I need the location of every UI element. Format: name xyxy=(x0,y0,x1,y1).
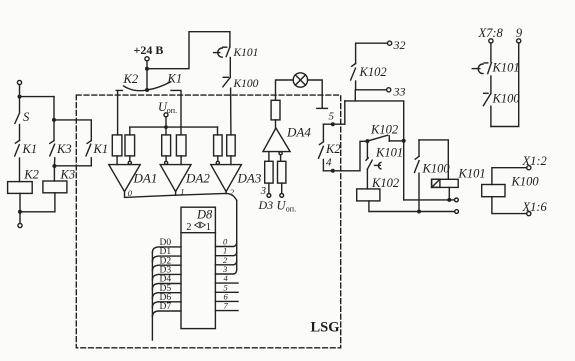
node 5 xyxy=(331,122,335,126)
input D2 xyxy=(152,265,181,271)
switch K2 (curved blade) xyxy=(123,69,150,92)
svg-text:K3: K3 xyxy=(60,168,76,182)
switch K1 xyxy=(15,140,37,181)
output 6 xyxy=(215,300,238,302)
svg-text:оп.: оп. xyxy=(286,205,296,214)
contact K101 (top) xyxy=(214,32,259,59)
resistor R4 xyxy=(176,135,186,156)
wire xyxy=(491,43,519,127)
wire + inverting input DA1 xyxy=(129,156,131,161)
wire xyxy=(490,43,492,62)
svg-text:5: 5 xyxy=(329,111,335,123)
svg-text:K102: K102 xyxy=(371,176,399,190)
resistor R3 xyxy=(162,135,171,156)
wire lamp right xyxy=(308,80,323,108)
terminal bottom-left xyxy=(18,223,22,227)
svg-text:K101: K101 xyxy=(458,167,486,181)
svg-text:K101: K101 xyxy=(233,47,259,59)
contact plate node 5 xyxy=(317,107,328,109)
contact K100 (top) xyxy=(223,77,259,135)
switch K1 (curved blade) xyxy=(147,72,182,91)
output 5 xyxy=(215,291,238,293)
terminal X1:2 xyxy=(527,166,531,170)
svg-text:DA4: DA4 xyxy=(286,125,311,140)
switch S xyxy=(15,97,30,141)
switch K2 (node 5-4) xyxy=(319,124,341,171)
multiplexer D8 xyxy=(181,207,215,328)
input D1 xyxy=(152,256,181,262)
wire xyxy=(165,127,167,135)
wire xyxy=(19,85,21,97)
input D4 xyxy=(152,284,181,290)
inverting input DA4 xyxy=(279,152,282,155)
svg-text:33: 33 xyxy=(393,85,406,99)
wire xyxy=(225,192,227,194)
fixed contact left (to R1) xyxy=(116,90,122,134)
wire node4 xyxy=(323,141,367,171)
svg-text:K1: K1 xyxy=(22,142,38,156)
svg-text:9: 9 xyxy=(516,26,523,40)
wire xyxy=(355,90,386,101)
resistor R9 xyxy=(278,161,286,183)
input D0 xyxy=(152,247,181,253)
node K101 coil bottom xyxy=(447,198,451,202)
terminal top-left xyxy=(17,80,21,84)
relay coil K100 xyxy=(482,175,540,197)
node rail xyxy=(402,139,406,143)
node 4 xyxy=(331,169,335,173)
output 1 xyxy=(215,251,236,256)
svg-text:DA2: DA2 xyxy=(185,171,210,186)
svg-text:K2: K2 xyxy=(23,168,39,182)
contact K101 (X7 branch) xyxy=(472,61,519,75)
wire xyxy=(492,197,527,214)
resistor R2 xyxy=(125,135,135,156)
wire xyxy=(175,192,177,196)
node K102 pivot xyxy=(365,139,369,143)
terminal +24V xyxy=(145,57,149,61)
terminal bottom right 2 xyxy=(455,210,459,214)
wire xyxy=(53,97,55,120)
svg-text:D7: D7 xyxy=(160,302,172,312)
wire xyxy=(116,156,118,165)
resistor R5 xyxy=(214,135,223,156)
wire xyxy=(19,212,21,224)
svg-text:+24 В: +24 В xyxy=(134,43,164,57)
svg-text:K3: K3 xyxy=(56,142,72,156)
wire xyxy=(146,61,148,69)
wire xyxy=(268,152,270,162)
svg-text:K1: K1 xyxy=(167,72,183,86)
relay coil K102 xyxy=(357,176,399,201)
wire output bus DA1-DA3 xyxy=(125,192,237,201)
wire xyxy=(356,43,388,63)
terminal 33 xyxy=(387,88,391,92)
input D5 xyxy=(152,293,181,299)
node junction K3 top xyxy=(52,118,56,122)
wire xyxy=(344,101,346,124)
svg-text:K100: K100 xyxy=(511,175,540,189)
node junction K3 bottom xyxy=(52,164,56,168)
terminal Uop xyxy=(164,113,168,117)
terminal 32 xyxy=(388,41,392,45)
wire Uop bus xyxy=(130,126,218,128)
svg-text:1: 1 xyxy=(206,222,211,233)
svg-text:7: 7 xyxy=(224,301,229,311)
svg-text:3: 3 xyxy=(260,186,266,197)
svg-text:K101: K101 xyxy=(492,61,520,75)
wire xyxy=(276,80,294,100)
op-amp DA3 xyxy=(211,165,262,192)
wire xyxy=(180,156,182,165)
svg-text:K100: K100 xyxy=(422,162,451,176)
resistor R6 xyxy=(227,135,236,156)
wire xyxy=(53,166,55,181)
svg-text:32: 32 xyxy=(393,38,406,52)
wire xyxy=(448,187,450,200)
wire + inverting input DA3 xyxy=(217,156,219,161)
wire xyxy=(490,76,492,93)
wire branch to rail xyxy=(345,101,404,200)
wire xyxy=(147,32,230,69)
svg-text:4: 4 xyxy=(326,157,332,169)
op-amp DA1 xyxy=(109,165,158,192)
wire bus vertical to mux outputs xyxy=(236,201,238,270)
switch K1 (second) xyxy=(86,141,108,166)
svg-text:2: 2 xyxy=(186,222,191,233)
wire xyxy=(20,193,55,212)
wire xyxy=(492,168,527,185)
terminal X7:8 xyxy=(489,39,493,43)
wire K100 loop top xyxy=(419,140,448,179)
wire xyxy=(229,58,231,78)
dashed box LSG xyxy=(76,95,340,348)
svg-text:X7:8: X7:8 xyxy=(478,26,504,40)
terminal D3 xyxy=(267,194,271,198)
wire rail bottom xyxy=(404,199,455,201)
wire xyxy=(54,120,91,141)
wire xyxy=(54,165,91,167)
wire input bus vertical xyxy=(151,252,153,340)
wire + inverting input DA2 xyxy=(165,156,167,161)
relay coil K2 xyxy=(8,168,39,194)
switch K102 (32-33) xyxy=(351,64,387,90)
wire node5 xyxy=(323,123,344,125)
svg-text:DA3: DA3 xyxy=(237,171,262,186)
svg-text:K102: K102 xyxy=(370,123,398,137)
wire xyxy=(19,193,21,211)
node junction left top xyxy=(18,95,22,99)
svg-text:DA1: DA1 xyxy=(133,171,158,186)
svg-text:D3: D3 xyxy=(258,198,274,212)
svg-text:D8: D8 xyxy=(196,207,213,221)
contact K100 (X7 branch) xyxy=(483,92,520,127)
output 2 xyxy=(215,260,236,265)
input D7 xyxy=(152,311,181,317)
svg-text:X1:6: X1:6 xyxy=(522,200,548,214)
svg-text:S: S xyxy=(23,110,30,124)
svg-text:LSG: LSG xyxy=(311,320,340,336)
output 4 xyxy=(215,282,238,284)
resistor R7 xyxy=(271,100,280,120)
svg-text:K100: K100 xyxy=(492,92,521,106)
svg-text:K100: K100 xyxy=(233,78,259,90)
label Uop (DA4) xyxy=(277,199,297,214)
wire xyxy=(268,183,270,193)
wire xyxy=(129,127,131,135)
wire xyxy=(20,96,55,98)
resistor R8 xyxy=(265,161,273,183)
input D6 xyxy=(152,302,181,308)
svg-text:K101: K101 xyxy=(375,146,403,160)
wire coil bottom xyxy=(369,201,455,212)
wire xyxy=(275,120,277,128)
relay coil K101 (polarized) xyxy=(432,167,486,188)
svg-text:K1: K1 xyxy=(93,142,109,156)
terminal Uop (DA4) xyxy=(280,194,284,198)
svg-text:X1:2: X1:2 xyxy=(522,154,547,168)
node Uop junction xyxy=(164,125,168,129)
wire xyxy=(281,183,283,193)
relay coil K3 xyxy=(43,168,75,193)
node K100 branch xyxy=(417,210,421,214)
svg-text:K2: K2 xyxy=(325,142,341,156)
label Uop xyxy=(158,100,177,115)
node +24V junction xyxy=(145,67,149,71)
output 0 xyxy=(215,242,236,247)
wire xyxy=(230,156,232,165)
wire xyxy=(217,127,219,135)
terminal bottom right 1 xyxy=(455,198,459,202)
contact K101 (latching) xyxy=(366,141,403,189)
terminal 9 xyxy=(517,39,521,43)
lamp HL xyxy=(293,73,307,87)
svg-text:K102: K102 xyxy=(359,65,387,79)
node junction left bottom xyxy=(18,210,22,214)
contact K102 (blade) xyxy=(367,123,403,142)
switch K100 (right) xyxy=(415,140,451,212)
op-amp DA2 xyxy=(160,165,210,192)
input D3 xyxy=(152,274,181,280)
output 7 xyxy=(215,310,238,312)
svg-text:K2: K2 xyxy=(123,72,139,86)
output 3 xyxy=(215,270,236,275)
wire xyxy=(165,117,167,127)
terminal X1:6 xyxy=(527,212,531,216)
resistor R1 xyxy=(112,135,122,156)
switch K3 xyxy=(50,120,72,166)
op-amp DA4 xyxy=(263,125,311,152)
fixed contact right (to R4) xyxy=(171,90,181,134)
